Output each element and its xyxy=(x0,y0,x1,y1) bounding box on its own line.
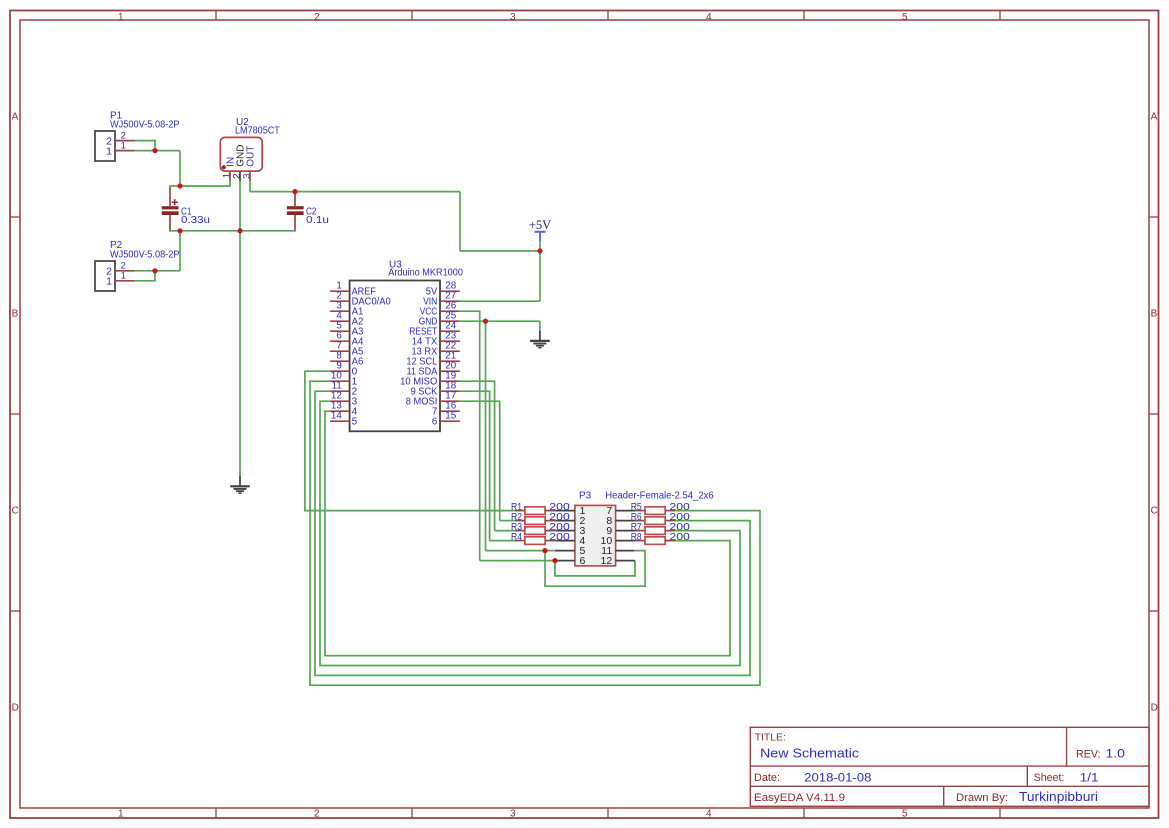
svg-text:1: 1 xyxy=(106,276,112,288)
wire P1.2 to node xyxy=(135,141,156,151)
frame row tick right xyxy=(1149,216,1159,218)
svg-text:1: 1 xyxy=(118,808,124,819)
svg-text:1: 1 xyxy=(121,271,126,282)
U3 pin 11 stub xyxy=(330,390,350,392)
svg-text:200: 200 xyxy=(669,532,690,543)
wire pin5 to pin11 loop xyxy=(545,551,645,587)
svg-text:A: A xyxy=(1151,112,1158,123)
+5V bar xyxy=(535,232,546,242)
wire U2.IN down xyxy=(229,181,231,187)
wire P2.2 east xyxy=(135,270,181,272)
wire P2.1 to node xyxy=(135,271,156,281)
frame row tick right xyxy=(1149,610,1159,612)
svg-text:B: B xyxy=(1151,309,1158,320)
frame column tick bottom xyxy=(607,808,609,818)
U3 pin 19 stub xyxy=(440,380,460,382)
wire U2.OUT down xyxy=(249,181,251,191)
C1 bottom pin xyxy=(169,215,171,232)
svg-text:+5V: +5V xyxy=(529,218,551,232)
junction P2 pins xyxy=(152,268,157,273)
U3 pin 28 stub xyxy=(440,290,460,292)
wire U2.GND down to rail xyxy=(239,181,241,231)
svg-text:4: 4 xyxy=(706,12,712,23)
frame column tick top xyxy=(999,11,1001,21)
wire GND to ground symbol xyxy=(539,321,541,331)
P1 pin 2 stub xyxy=(115,140,135,142)
svg-text:2018-01-08: 2018-01-08 xyxy=(804,771,872,785)
svg-text:R4: R4 xyxy=(511,532,522,543)
svg-text:1.0: 1.0 xyxy=(1106,749,1125,761)
U3 pin 26 stub xyxy=(440,310,460,312)
svg-text:14: 14 xyxy=(331,411,342,422)
wire pin6 to pin12 loop xyxy=(555,561,635,576)
P3 pin 11 stub xyxy=(616,550,634,552)
frame column tick bottom xyxy=(803,808,805,818)
resistor R6 right bank xyxy=(635,517,675,525)
wire GND to P3 pin5 xyxy=(486,550,546,552)
P3 pin 1 stub xyxy=(555,510,575,512)
resistor R1 left bank xyxy=(515,507,555,515)
svg-text:A: A xyxy=(12,112,19,123)
U3 pin 1 stub xyxy=(330,290,350,292)
wire IN net horizontal xyxy=(169,185,230,187)
junction P3 pin6 xyxy=(552,558,557,563)
U3 pin 6 stub xyxy=(330,340,350,342)
resistor R8 right bank xyxy=(635,537,675,545)
wire VCC to P3 pin6 xyxy=(480,560,555,562)
wire P2 up to GND rail xyxy=(179,231,181,271)
connector P1 WJ500V-5.08-2P xyxy=(95,131,115,161)
P3 pin 12 stub xyxy=(616,560,635,562)
svg-text:5: 5 xyxy=(902,12,908,23)
U3 pin 23 stub xyxy=(440,340,460,342)
frame row tick left xyxy=(10,413,20,415)
resistor R3 left bank xyxy=(515,527,555,535)
frame column tick bottom xyxy=(411,808,413,818)
svg-text:2: 2 xyxy=(314,12,320,23)
U3 pin 24 stub xyxy=(440,330,460,332)
svg-text:Date:: Date: xyxy=(754,772,780,784)
frame column tick top xyxy=(607,11,609,21)
frame column tick bottom xyxy=(999,808,1001,818)
resistor R5 right bank xyxy=(635,507,675,515)
junction +5V xyxy=(537,248,542,253)
U3 pin 13 stub xyxy=(330,410,350,412)
U3 pin 2 stub xyxy=(330,300,350,302)
svg-text:C: C xyxy=(1151,506,1158,517)
U3 pin 3 stub xyxy=(330,310,350,312)
svg-text:1: 1 xyxy=(106,145,112,157)
wire SCK net xyxy=(460,391,490,540)
wire P3 pin5 short xyxy=(545,550,555,552)
svg-text:0.1u: 0.1u xyxy=(306,215,329,226)
svg-text:TITLE:: TITLE: xyxy=(755,732,786,744)
P3 pin 8 stub xyxy=(616,520,635,522)
svg-text:C: C xyxy=(12,506,19,517)
svg-text:D: D xyxy=(1151,703,1158,714)
U2 pin 2 GND stub xyxy=(239,171,241,181)
U3 pin 7 stub xyxy=(330,350,350,352)
junction P1 pins xyxy=(152,148,157,153)
wire D4 net to R8 xyxy=(325,411,730,656)
svg-text:4: 4 xyxy=(706,808,712,819)
frame row tick right xyxy=(1149,413,1159,415)
C1 top pin xyxy=(169,187,171,206)
svg-text:6: 6 xyxy=(432,416,438,427)
frame row tick left xyxy=(10,216,20,218)
P2 pin 2 stub xyxy=(115,270,135,272)
junction GND rail / U2 GND xyxy=(237,228,242,233)
resistor R2 left bank xyxy=(515,517,555,525)
svg-text:1: 1 xyxy=(121,140,126,151)
svg-text:1/1: 1/1 xyxy=(1080,773,1099,785)
C1 plus sign xyxy=(172,199,178,205)
U3 pin 18 stub xyxy=(440,390,460,392)
U3 pin 9 stub xyxy=(330,370,350,372)
U3 pin 22 stub xyxy=(440,350,460,352)
wire +5V net horizontal xyxy=(250,191,460,193)
svg-text:Sheet:: Sheet: xyxy=(1034,772,1065,784)
wire P1 down to IN net xyxy=(179,151,181,186)
wire D0 net to R1 xyxy=(305,371,515,510)
svg-text:WJ500V-5.08-2P: WJ500V-5.08-2P xyxy=(110,119,180,130)
wire +5V net down xyxy=(459,192,461,251)
wire MOSI net xyxy=(460,401,500,520)
U3 pin 8 stub xyxy=(330,360,350,362)
connector P2 WJ500V-5.08-2P xyxy=(95,261,115,291)
title block outline xyxy=(750,727,1149,806)
svg-text:12: 12 xyxy=(601,555,613,567)
C1 bottom plate xyxy=(162,211,179,215)
C2 bottom pin xyxy=(294,215,296,232)
U3 pin 14 stub xyxy=(330,420,350,422)
svg-text:REV:: REV: xyxy=(1076,749,1101,761)
P3 pin 10 stub xyxy=(616,540,635,542)
P2 pin 1 stub xyxy=(115,280,135,282)
U3 pin 25 stub xyxy=(440,320,460,322)
junction GND rail / P2 xyxy=(177,228,182,233)
U3 pin 17 stub xyxy=(440,400,460,402)
resistor R7 right bank xyxy=(635,527,675,535)
U3 pin 16 stub xyxy=(440,410,460,412)
svg-text:EasyEDA V4.11.9: EasyEDA V4.11.9 xyxy=(754,792,845,804)
P3 pin 3 stub xyxy=(555,530,575,532)
U3 pin 4 stub xyxy=(330,320,350,322)
U3 pin 15 stub xyxy=(440,420,460,422)
wire +5V net horizontal 2 xyxy=(460,250,540,252)
junction C2 top xyxy=(292,189,297,194)
C2 top pin xyxy=(294,192,296,206)
svg-text:Arduino MKR1000: Arduino MKR1000 xyxy=(388,268,463,279)
svg-text:New Schematic: New Schematic xyxy=(760,746,860,761)
P1 pin 1 stub xyxy=(115,150,135,152)
wire MISO net xyxy=(460,381,495,530)
connector P3 Header-Female-2.54_2x6 body xyxy=(575,505,616,566)
svg-text:5: 5 xyxy=(352,416,358,427)
wire GND pin25 horizontal xyxy=(460,320,540,322)
svg-text:LM7805CT: LM7805CT xyxy=(235,126,280,137)
svg-text:3: 3 xyxy=(510,12,516,23)
wire +5V down to VIN xyxy=(539,251,541,301)
wire GND net down xyxy=(485,321,487,550)
frame column tick top xyxy=(215,11,217,21)
U3 pin 27 stub xyxy=(440,300,460,302)
U2 pin1 marker dot xyxy=(222,165,226,169)
U3 pin 5 stub xyxy=(330,330,350,332)
frame column tick top xyxy=(803,11,805,21)
U2 pin 3 OUT stub xyxy=(249,171,251,181)
frame row tick left xyxy=(10,610,20,612)
U3 pin 12 stub xyxy=(330,400,350,402)
wire MISO to R3 xyxy=(495,530,515,532)
wire VIN horizontal xyxy=(460,300,540,302)
wire D1 net to R5 xyxy=(310,381,760,685)
op-amp U2 LM7805CT body xyxy=(220,137,262,171)
P3 pin 7 stub xyxy=(616,510,635,512)
C2 top plate xyxy=(287,206,304,209)
P3 pin 5 stub xyxy=(555,550,575,552)
wire MOSI to R2 xyxy=(500,520,515,522)
wire VCC net xyxy=(460,311,480,560)
IC U3 Arduino MKR1000 body xyxy=(350,281,440,432)
svg-text:3: 3 xyxy=(510,808,516,819)
wire C1 corner vertical xyxy=(169,186,171,188)
svg-text:15: 15 xyxy=(445,411,456,422)
U3 pin 10 stub xyxy=(330,380,350,382)
svg-text:5: 5 xyxy=(902,808,908,819)
svg-text:1: 1 xyxy=(118,12,124,23)
junction P3 pin5 xyxy=(542,548,547,553)
wire D3 net to R7 xyxy=(320,401,740,665)
svg-text:2: 2 xyxy=(314,808,320,819)
svg-text:WJ500V-5.08-2P: WJ500V-5.08-2P xyxy=(110,250,180,261)
U2 pin 1 IN stub xyxy=(229,171,231,181)
C2 bottom plate xyxy=(287,211,304,215)
frame column tick bottom xyxy=(215,808,217,818)
svg-text:B: B xyxy=(12,309,19,320)
svg-text:Turkinpibburi: Turkinpibburi xyxy=(1019,790,1098,804)
junction IN net xyxy=(177,183,182,188)
wire GND rail down to ground xyxy=(239,231,241,476)
svg-text:0.33u: 0.33u xyxy=(181,215,210,226)
U3 pin 20 stub xyxy=(440,370,460,372)
svg-text:6: 6 xyxy=(580,555,586,567)
svg-text:Header-Female-2.54_2x6: Header-Female-2.54_2x6 xyxy=(605,491,714,502)
ground symbol under U2 xyxy=(230,476,250,493)
wire +5V flag to junction xyxy=(539,241,541,251)
svg-text:P3: P3 xyxy=(579,491,592,502)
junction GND net xyxy=(483,319,488,324)
resistor R4 left bank xyxy=(515,537,555,545)
P3 pin 9 stub xyxy=(616,530,635,532)
P3 pin 2 stub xyxy=(555,520,575,522)
wire SCK to R4 xyxy=(490,540,515,542)
svg-text:OUT: OUT xyxy=(246,146,257,167)
U3 pin 21 stub xyxy=(440,360,460,362)
wire GND rail horizontal xyxy=(169,230,296,232)
svg-text:Drawn By:: Drawn By: xyxy=(956,792,1008,804)
wire P1.1 east xyxy=(135,150,181,152)
wire D2 net to R6 xyxy=(315,391,750,675)
P3 pin 4 stub xyxy=(555,540,575,542)
P3 pin 6 stub xyxy=(555,560,575,562)
frame column tick top xyxy=(411,11,413,21)
C1 top plate xyxy=(162,206,179,209)
ground symbol near U3 xyxy=(530,331,550,348)
svg-text:D: D xyxy=(12,703,19,714)
